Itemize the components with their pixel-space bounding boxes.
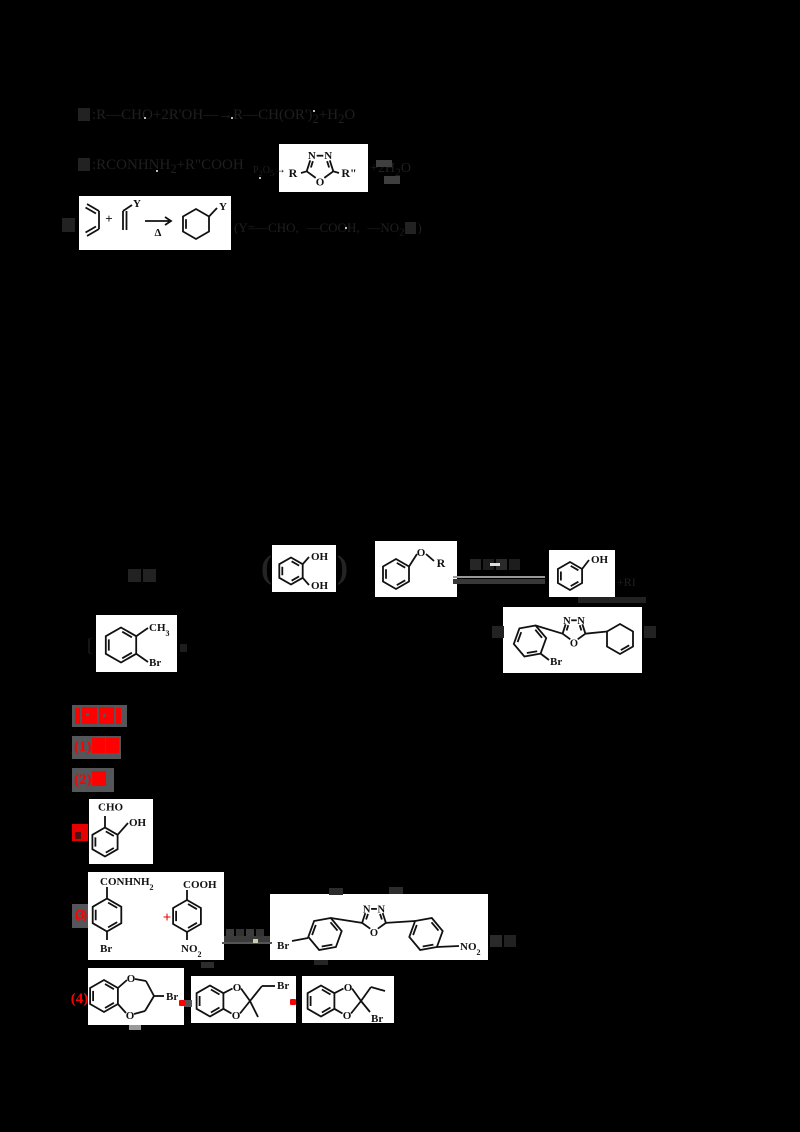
- svg-text:O: O: [126, 1010, 135, 1022]
- 2,3-dihydro-1,5-benzodioxepine bromide: [88, 968, 184, 1025]
- red mark before salicylaldehyde: [72, 824, 88, 841]
- right parenthesis around catechol: [337, 550, 348, 586]
- ghost +RI after phenol: [617, 576, 636, 589]
- svg-text:O: O: [316, 177, 325, 189]
- svg-text:O: O: [233, 982, 242, 994]
- svg-text:Br: Br: [100, 943, 112, 955]
- ghost reagent label above arrow: [470, 558, 522, 571]
- svg-text:Br: Br: [166, 991, 178, 1003]
- svg-text:N: N: [324, 150, 332, 162]
- red answer heading (answer label blob): [72, 705, 127, 727]
- svg-text:Δ: Δ: [155, 227, 162, 239]
- svg-text:Br: Br: [277, 940, 289, 952]
- ghost char left of target box: [492, 625, 506, 639]
- ghost bracket before toluene box: [87, 636, 93, 656]
- svg-text:Y: Y: [219, 201, 227, 213]
- svg-text:O: O: [417, 547, 426, 559]
- svg-text:Y: Y: [133, 198, 141, 210]
- ghost equation line 2 (row 2): [78, 157, 244, 177]
- svg-text:CH3: CH3: [149, 622, 170, 638]
- red answer (1) blob: [72, 736, 121, 759]
- svg-text:O: O: [570, 639, 578, 650]
- ghost equation line 1 (row 1): [78, 107, 355, 127]
- svg-text:N: N: [577, 616, 585, 627]
- Diels-Alder example (row 3): [79, 196, 231, 250]
- phenyl ether Ph-O-R: [375, 541, 457, 597]
- svg-text:O: O: [343, 1010, 352, 1022]
- ghost known-info label: [128, 569, 158, 584]
- svg-text:CONHNH2: CONHNH2: [100, 876, 154, 892]
- svg-text:OH: OH: [311, 580, 329, 592]
- svg-text:N: N: [378, 904, 386, 915]
- o-bromotoluene: [96, 615, 177, 672]
- svg-text:N: N: [363, 904, 371, 915]
- reaction arrow (hydrazide -> product): [224, 936, 270, 943]
- svg-text:Br: Br: [550, 656, 562, 668]
- ghost lead char (row 3): [62, 218, 77, 234]
- svg-text:+: +: [163, 910, 172, 926]
- catechol: [272, 545, 336, 592]
- red mark (3) before hydrazide box: [72, 904, 88, 928]
- phenol: [549, 550, 615, 597]
- ghost Y= substituent list (row 3): [234, 221, 422, 240]
- ghost label after product box: [490, 934, 518, 948]
- red comma between box D and E: [290, 999, 296, 1005]
- svg-text:CHO: CHO: [98, 802, 124, 814]
- ghost +2H2O after oxadiazole box: [370, 161, 411, 180]
- oxadiazole generic (row 2): [279, 144, 368, 192]
- target molecule 2-(2-bromophenyl)-5-cyclohexenyl-oxadiazole: [503, 607, 642, 673]
- svg-text:COOH: COOH: [183, 879, 217, 891]
- ghost tick after toluene box: [180, 643, 189, 653]
- red answer (2) blob: [72, 768, 114, 792]
- svg-text:R: R: [289, 166, 298, 180]
- 2-(4-bromophenyl)-5-(4-nitrophenyl)-1,3,4-oxadiazole: [270, 894, 488, 960]
- red mark (4) before benzodioxepine: [70, 990, 89, 1008]
- svg-text:OH: OH: [591, 554, 609, 566]
- red comma between box C and D: [184, 1000, 192, 1007]
- benzodioxole with ethyl and Br: [302, 976, 394, 1023]
- 4-bromobenzohydrazide + 4-nitrobenzoic acid: [88, 872, 224, 960]
- svg-text:NO2: NO2: [460, 941, 481, 957]
- svg-text:O: O: [344, 982, 353, 994]
- benzodioxole with CH2Br and CH3: [191, 976, 296, 1023]
- jpeg artifact blocks: [578, 597, 646, 603]
- salicylaldehyde: [89, 799, 153, 864]
- svg-text:NO2: NO2: [181, 943, 202, 959]
- svg-text:Br: Br: [371, 1013, 383, 1023]
- ghost P2O5 arrow label (row 2): [253, 163, 286, 178]
- svg-text:R": R": [341, 166, 356, 180]
- svg-text:O: O: [370, 928, 378, 939]
- ghost char right of target box: [644, 625, 658, 639]
- reaction arrow (ether -> phenol): [453, 576, 545, 578]
- svg-text:N: N: [563, 616, 571, 627]
- svg-text:N: N: [308, 150, 316, 162]
- svg-text:Br: Br: [149, 657, 161, 669]
- left parenthesis around catechol: [261, 550, 272, 586]
- svg-text:O: O: [127, 973, 136, 985]
- svg-text:OH: OH: [129, 817, 147, 829]
- svg-text:OH: OH: [311, 551, 329, 563]
- svg-text:R: R: [437, 556, 446, 570]
- svg-text:O: O: [232, 1010, 241, 1022]
- svg-text:Br: Br: [277, 980, 289, 992]
- ghost condition label over arrow: [226, 928, 266, 938]
- svg-text:+: +: [105, 211, 112, 226]
